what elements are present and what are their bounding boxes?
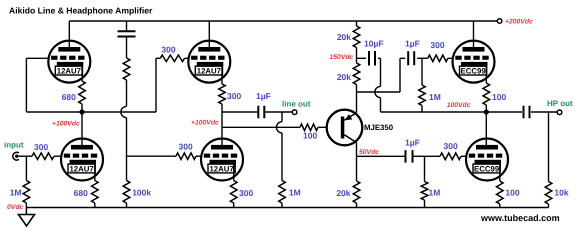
wire cap to HP terminal: [531, 111, 557, 113]
resistor 100 base: [300, 124, 318, 131]
svg-text:12AU7: 12AU7: [197, 66, 221, 75]
transistor Q1 MJE350: [327, 110, 363, 146]
wire collector row to 1uF: [357, 155, 405, 157]
wire 1uF to 1M junction: [414, 155, 425, 157]
terminal HP out: [557, 110, 562, 115]
wire 300 to V1b grid: [54, 155, 61, 157]
wire divider to grid tee: [126, 118, 128, 181]
wire node A up to grid resistor: [155, 58, 157, 112]
svg-text:+100Vdc: +100Vdc: [52, 121, 80, 128]
wire 1M tap down: [421, 58, 423, 85]
resistor divider: [123, 58, 130, 80]
resistor 100 V3a cathode: [483, 83, 490, 105]
wire grid V1a: [26, 57, 48, 59]
resistor 1M input: [23, 181, 30, 204]
svg-text:300: 300: [227, 91, 241, 101]
wire node C to V3b plate: [485, 112, 487, 149]
svg-text:10k: 10k: [554, 187, 568, 197]
wire 1M to out row: [421, 106, 423, 113]
svg-text:150Vdc: 150Vdc: [329, 54, 353, 61]
wire 100k to ground rail: [126, 203, 128, 208]
capacitor 1uF top: [408, 51, 414, 65]
svg-text:+200Vdc: +200Vdc: [505, 18, 533, 25]
junction node C: [484, 109, 489, 114]
svg-text:300: 300: [34, 142, 48, 152]
svg-text:+100Vdc: +100Vdc: [191, 120, 219, 127]
resistor 1M grid leak: [419, 85, 426, 106]
terminal +200Vdc: [497, 19, 502, 24]
triode V3b ECC99: [466, 139, 508, 181]
wire hop over base wire: [276, 122, 282, 133]
wire plate lead V1a: [68, 21, 70, 51]
wire input to 1M: [25, 156, 27, 180]
wire top B+ rail: [69, 20, 497, 22]
capacitor 1uF line out: [258, 106, 264, 118]
wire plate lead V3a: [473, 21, 475, 51]
wire cathode to node B: [221, 104, 223, 112]
wire 300 to V3b grid: [461, 155, 466, 157]
wire input jack to 300: [17, 155, 32, 157]
wire cathode lead V3a: [485, 66, 487, 83]
capacitor HP out: [524, 106, 530, 118]
svg-text:680: 680: [62, 92, 76, 102]
wire C1 to R divider: [126, 38, 128, 59]
resistor 680 V1a cathode: [79, 81, 86, 104]
resistor 1M bottom: [421, 182, 428, 201]
svg-text:0Vdc: 0Vdc: [7, 204, 23, 211]
svg-text:20k: 20k: [336, 188, 350, 198]
svg-text:300: 300: [179, 142, 193, 152]
wire to 300 V2a grid: [156, 57, 160, 59]
wire 20k junction: [356, 48, 358, 64]
svg-text:12AU7: 12AU7: [69, 164, 93, 173]
ground symbol: [19, 208, 35, 227]
svg-text:1M: 1M: [289, 188, 301, 198]
svg-text:300: 300: [161, 45, 175, 55]
svg-text:1M: 1M: [429, 92, 441, 102]
resistor 300 V2b grid: [176, 153, 196, 160]
svg-text:input: input: [4, 141, 24, 150]
resistor 300 V3b grid: [440, 153, 461, 160]
svg-text:100k: 100k: [132, 188, 151, 198]
wire corner up to 1uF: [399, 58, 401, 92]
wire node B down to V2b plate: [221, 112, 223, 149]
wire 300 to V2a grid: [185, 57, 189, 59]
connector input jack: [13, 152, 19, 160]
wire collector down: [356, 143, 358, 157]
svg-text:Aikido Line & Headphone Amplif: Aikido Line & Headphone Amplifier: [9, 6, 153, 16]
wire grid tee to 300 V2b: [127, 155, 177, 157]
wire 150V node to 10uF: [357, 57, 367, 59]
wire 10uF down: [380, 58, 382, 86]
svg-text:100: 100: [505, 187, 519, 197]
wire 680 to node A: [81, 104, 83, 112]
svg-text:1µF: 1µF: [405, 138, 420, 148]
triode V3a ECC99: [453, 41, 495, 83]
resistor 300 V2a cathode: [219, 84, 226, 104]
resistor 300 V2a grid: [160, 55, 184, 62]
junction node A: [79, 109, 84, 114]
wire 1M bottom to rail: [424, 200, 426, 208]
resistor 300 V3a grid: [428, 55, 448, 62]
wire hop over emitter row: [375, 86, 381, 97]
svg-text:680: 680: [74, 188, 88, 198]
svg-text:www.tubecad.com: www.tubecad.com: [480, 213, 560, 223]
resistor 100 V3b cathode: [497, 181, 504, 204]
wire emitter up: [356, 92, 358, 113]
wire branch to 1M: [281, 133, 283, 181]
wire 20k to emitter node: [356, 85, 358, 93]
svg-text:20k: 20k: [337, 72, 351, 82]
resistor 100k: [123, 181, 130, 204]
wire into 1uF: [400, 57, 405, 59]
svg-text:300: 300: [430, 40, 444, 50]
svg-text:line out: line out: [282, 99, 311, 108]
resistor 300 V2b cathode: [230, 181, 237, 204]
wire divider down: [126, 80, 128, 106]
wire 10k branch: [548, 112, 550, 182]
wire 10uF right corner: [378, 57, 381, 59]
svg-text:20k: 20k: [337, 32, 351, 42]
wire 20k to rail: [356, 203, 358, 208]
svg-text:1M: 1M: [10, 188, 22, 198]
svg-text:300: 300: [239, 188, 253, 198]
resistor 300 input: [32, 153, 54, 160]
triode V1a 12AU7: [48, 41, 90, 83]
svg-text:100: 100: [492, 92, 506, 102]
wire 680 V1b to rail: [94, 203, 96, 208]
wire 10uF down to out row: [380, 98, 382, 112]
terminal line out: [292, 110, 297, 115]
wire 100 to base: [318, 126, 327, 128]
svg-text:1M: 1M: [429, 188, 441, 198]
wire 1M to ground rail: [281, 203, 283, 208]
svg-text:300: 300: [444, 141, 458, 151]
svg-text:MJE350: MJE350: [364, 123, 394, 132]
wire hop over node A wire: [121, 106, 127, 117]
triode V2b 12AU7: [201, 139, 243, 181]
svg-text:1µF: 1µF: [405, 39, 420, 49]
wire cathode lead V3b: [499, 164, 501, 181]
svg-text:ECC99: ECC99: [461, 66, 487, 75]
wire 300 to V2b grid: [196, 155, 201, 157]
svg-text:100Vdc: 100Vdc: [447, 102, 471, 109]
wire cathode lead V1b: [94, 164, 96, 181]
wire out row: [381, 111, 523, 113]
wire 20k collector branch: [356, 156, 358, 181]
triode V1b 12AU7: [61, 139, 103, 181]
capacitor 10uF: [369, 51, 375, 66]
capacitor C1: [118, 31, 136, 36]
wire cathode lead V2b: [233, 164, 235, 181]
resistor 680 V1b cathode: [92, 181, 99, 204]
svg-text:12AU7: 12AU7: [209, 164, 233, 173]
wire node B to cap: [222, 111, 257, 113]
wire 10k to rail: [548, 204, 550, 208]
wire rail to cap C1: [126, 21, 128, 30]
wire node A horizontal: [26, 111, 156, 113]
wire V1b plate lead: [81, 112, 83, 149]
wire 100 V3b to rail: [499, 204, 501, 208]
svg-text:12AU7: 12AU7: [57, 66, 81, 75]
resistor 20k lower: [353, 63, 360, 85]
resistor 20k collector: [353, 181, 360, 203]
wire cathode lead V1a: [81, 66, 83, 81]
wire rail to 20k: [356, 21, 358, 26]
wire grid feedback vertical: [25, 58, 27, 112]
wire line-out branch down: [281, 112, 283, 122]
svg-text:50Vdc: 50Vdc: [359, 149, 379, 156]
svg-text:100: 100: [303, 131, 317, 141]
wire 1M bottom branch: [424, 156, 426, 181]
wire plate lead V2a: [208, 21, 210, 51]
wire emitter node row: [357, 91, 401, 93]
svg-text:10µF: 10µF: [364, 39, 384, 49]
resistor 20k upper: [353, 26, 360, 48]
wire junction to 300 V3b: [425, 155, 441, 157]
wire 1M input to rail: [25, 203, 27, 208]
triode V2a 12AU7: [188, 41, 230, 83]
svg-text:1µF: 1µF: [256, 91, 271, 101]
resistor 10k: [545, 182, 552, 205]
wire 300 V2b to rail: [233, 203, 235, 208]
svg-text:HP out: HP out: [547, 99, 573, 108]
wire ground rail: [26, 207, 548, 209]
wire cathode lead V2a: [221, 66, 223, 84]
wire 100 to node C: [485, 105, 487, 112]
wire node B to base resistor: [222, 126, 300, 128]
wire 1uF to 1M tap: [417, 57, 428, 59]
capacitor 1uF bottom: [406, 150, 413, 163]
wire cap to line out: [265, 111, 292, 113]
resistor 1M line out: [279, 181, 286, 204]
svg-text:ECC99: ECC99: [474, 164, 500, 173]
wire 300 to V3a grid: [448, 57, 453, 59]
